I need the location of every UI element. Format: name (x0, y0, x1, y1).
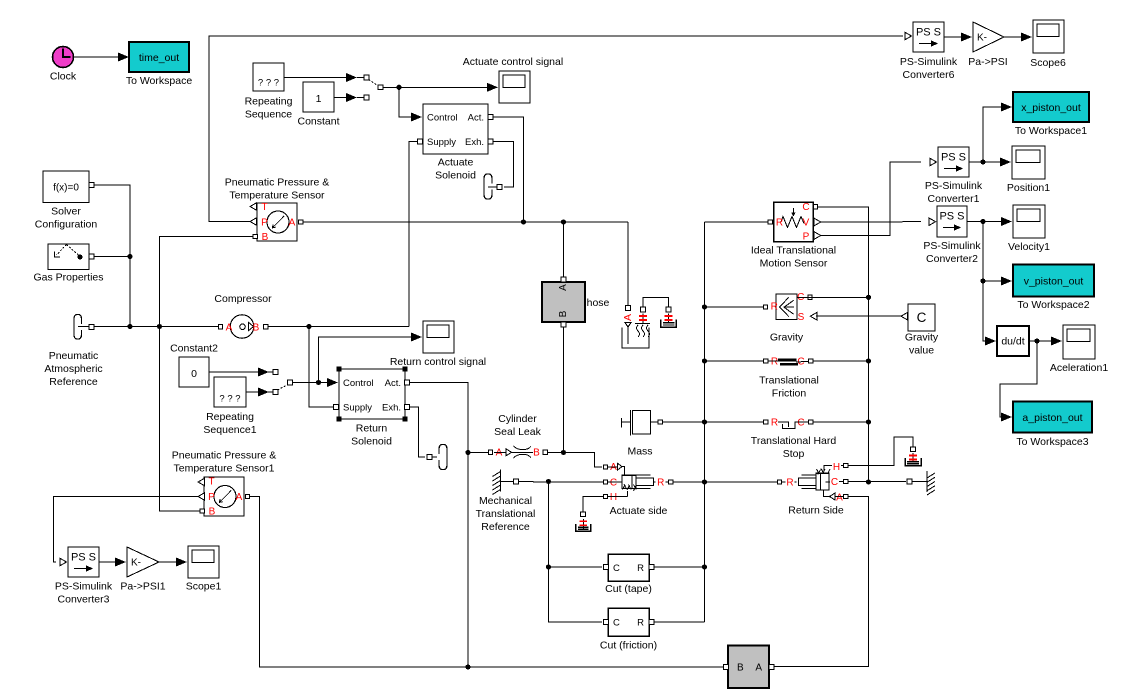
svg-text:Actuate control signal: Actuate control signal (463, 56, 563, 68)
port CutTape C (603, 565, 608, 570)
port Actuate Supply (418, 139, 423, 144)
svg-text:R: R (771, 302, 778, 313)
block To Workspace time_out (126, 42, 192, 87)
svg-text:? ? ?: ? ? ? (219, 394, 240, 405)
block Position1 (1007, 146, 1050, 194)
block scope Return control signal (390, 321, 486, 368)
wire return supply drop (309, 327, 333, 408)
svg-text:P: P (803, 232, 810, 243)
wire Repeating Sequence to switch (284, 73, 357, 82)
block scope Actuate control signal (463, 56, 563, 103)
port Return vent (427, 455, 432, 460)
svg-text:Pneumatic: Pneumatic (49, 350, 99, 362)
svg-text:Velocity1: Velocity1 (1008, 241, 1050, 253)
svg-text:Constant2: Constant2 (170, 343, 218, 355)
svg-text:Control: Control (343, 378, 374, 389)
wire supply to piston (627, 222, 629, 306)
svg-text:Pa->PSI1: Pa->PSI1 (120, 581, 165, 593)
port Return Supply (334, 405, 339, 410)
wire hose A (563, 222, 565, 277)
svg-text:V: V (803, 218, 810, 229)
block Mechanical Translational Reference (476, 470, 536, 534)
wire Return H vent (848, 437, 913, 466)
svg-text:A: A (558, 284, 569, 291)
junction bottom bus (465, 664, 470, 669)
svg-text:R: R (771, 357, 778, 368)
port CutTape R (649, 565, 654, 570)
block Compressor (214, 293, 272, 338)
svg-text:B: B (533, 448, 540, 459)
block Gravity (770, 292, 805, 344)
wire Gas Properties to tap (94, 256, 130, 258)
port Return Exh (405, 405, 410, 410)
svg-text:0: 0 (191, 368, 197, 380)
wire Return C (848, 481, 906, 483)
svg-text:Return Side: Return Side (788, 505, 844, 517)
block Return vent reservoir (905, 458, 921, 466)
svg-text:Clock: Clock (50, 71, 77, 83)
svg-text:value: value (909, 345, 934, 357)
block To Workspace1 x_piston_out (1013, 92, 1089, 137)
junction Gas Properties tap (127, 254, 132, 259)
svg-text:Mass: Mass (627, 446, 652, 458)
svg-text:Converter2: Converter2 (926, 253, 978, 265)
port Mass (658, 420, 662, 424)
svg-text:K-: K- (131, 558, 141, 569)
svg-text:Cylinder: Cylinder (498, 413, 537, 425)
block hose (542, 282, 610, 322)
svg-text:Translational Hard: Translational Hard (751, 435, 837, 447)
svg-text:C: C (917, 310, 927, 325)
arrow into Converter6 (905, 32, 912, 40)
port Return C (844, 479, 848, 483)
block hose2 (728, 646, 769, 689)
wire switch1 out (293, 382, 328, 384)
block PS-Simulink Converter2 (923, 206, 981, 265)
block Actuate side (608, 462, 669, 517)
svg-text:B: B (558, 310, 569, 317)
port sensor P (250, 218, 257, 226)
block gain Pa-PSI (968, 22, 1007, 68)
wire Repeating Sequence1 to switch1 (246, 388, 269, 397)
block piston vent reservoir (661, 320, 677, 328)
svg-text:Position1: Position1 (1007, 182, 1050, 194)
svg-text:P: P (261, 218, 268, 229)
junction return control (316, 380, 321, 385)
junction cut tape (546, 564, 551, 569)
port piston B (641, 307, 646, 312)
svg-text:Control: Control (427, 113, 458, 124)
wire to Return scope (319, 333, 423, 383)
svg-text:A: A (236, 492, 243, 503)
junction hose B leak (561, 450, 566, 455)
junction leak RS Act (465, 450, 470, 455)
port Actuate Exh (488, 139, 493, 144)
arrow into Actuate scope (487, 83, 498, 92)
port mech reference1 (907, 479, 912, 484)
block Mass (621, 410, 652, 458)
block Cylinder Seal Leak (494, 413, 542, 459)
port hose B (561, 322, 566, 327)
block Actuate Solenoid (423, 104, 488, 182)
block Mechanical Translational Reference1 (912, 471, 935, 495)
wire Friction R (813, 360, 869, 362)
arrow into Converter2 (929, 218, 936, 226)
wire cut riser (549, 482, 603, 623)
junction right bus friction (866, 358, 871, 363)
junction Act line (521, 219, 526, 224)
port CutFriction C (603, 620, 608, 625)
wire HardStop R (813, 421, 869, 423)
svg-text:C: C (831, 477, 838, 488)
wire to a_piston_out (1000, 341, 1037, 422)
svg-text:Configuration: Configuration (35, 219, 98, 231)
port Compressor A (218, 325, 222, 329)
wire Return A down (774, 497, 869, 667)
svg-text:hose: hose (587, 297, 610, 309)
junction bus gravity (702, 304, 707, 309)
port Actuate H vent (581, 512, 586, 517)
svg-text:Solenoid: Solenoid (351, 436, 392, 448)
svg-text:PS-Simulink: PS-Simulink (923, 240, 981, 252)
svg-text:C: C (613, 618, 620, 629)
block Gas Properties (33, 244, 103, 284)
wire leak to actuate A (548, 453, 603, 468)
wire leak line (468, 452, 488, 454)
port Actuate R (669, 480, 673, 484)
svg-text:PS S: PS S (71, 552, 96, 564)
svg-text:T: T (261, 202, 267, 213)
block Actuate vent capsule (484, 174, 497, 199)
svg-text:Atmospheric: Atmospheric (44, 363, 102, 375)
svg-text:Solver: Solver (51, 206, 81, 218)
wire CutFriction R (654, 621, 705, 623)
wire du/dt out (1029, 337, 1062, 346)
port sensor1 T (198, 478, 205, 486)
wire Solver Configuration to atmospheric line (94, 185, 130, 327)
junction velocity split (980, 219, 985, 224)
svg-text:B: B (209, 507, 216, 518)
junction bus piston R (702, 479, 707, 484)
port sensor1 B (200, 509, 204, 513)
port Pneumatic Atmospheric Reference (89, 325, 94, 330)
symbol piston B orifice (639, 314, 647, 324)
port hose2 A (769, 665, 774, 670)
svg-text:R: R (786, 478, 793, 489)
port HardStop R (809, 420, 813, 424)
port Compressor B (264, 325, 268, 329)
svg-text:Pa->PSI: Pa->PSI (968, 56, 1007, 68)
svg-text:PS S: PS S (941, 152, 966, 164)
svg-text:R: R (637, 563, 644, 574)
wire piston bridge (643, 298, 669, 309)
selection handles Return Solenoid (337, 367, 408, 422)
port Friction R (809, 359, 813, 363)
port Solver Configuration (89, 183, 94, 188)
wire Gravity R (705, 306, 764, 308)
svg-text:v_piston_out: v_piston_out (1024, 276, 1084, 288)
block Translational Friction (759, 357, 819, 400)
block Velocity1 (1008, 205, 1050, 253)
block Repeating Sequence1 (203, 377, 256, 436)
wire motion P to Converter1 (821, 162, 921, 236)
svg-text:Act.: Act. (385, 378, 401, 389)
svg-text:Converter1: Converter1 (928, 193, 980, 205)
svg-text:Temperature Sensor1: Temperature Sensor1 (174, 463, 275, 475)
svg-text:? ? ?: ? ? ? (258, 78, 279, 89)
port Gas Properties (89, 254, 94, 259)
svg-text:Cut (friction): Cut (friction) (600, 640, 657, 652)
svg-text:S: S (798, 312, 805, 323)
wire cut tape C (549, 566, 603, 568)
svg-text:Converter3: Converter3 (58, 594, 110, 606)
svg-text:Return control signal: Return control signal (390, 356, 486, 368)
svg-text:Reference: Reference (481, 521, 530, 533)
symbol Return vent marks (909, 453, 917, 463)
port Friction L (764, 359, 768, 363)
port motion V (814, 218, 821, 226)
svg-text:T: T (208, 477, 214, 488)
port Return H (844, 463, 848, 467)
svg-text:Sequence1: Sequence1 (203, 424, 256, 436)
wire atmospheric line (94, 326, 218, 328)
svg-text:K-: K- (977, 33, 987, 44)
port piston vent (666, 307, 671, 312)
block Pneumatic Atmospheric Reference (44, 315, 102, 389)
wire Constant2 to switch1 (209, 368, 269, 377)
port motion R (768, 220, 772, 224)
port Actuate Act (488, 115, 493, 120)
wire supply riser (409, 142, 418, 327)
wire Mass to bus (651, 421, 705, 423)
block To Workspace3 a_piston_out (1013, 402, 1092, 449)
svg-text:PS S: PS S (939, 211, 964, 223)
junction sensor B line (157, 324, 162, 329)
block PS-Simulink Converter6 (900, 22, 958, 81)
port Gravity S (810, 312, 817, 320)
svg-text:C: C (797, 418, 804, 429)
junction hose A line (561, 219, 566, 224)
svg-text:Solenoid: Solenoid (435, 170, 476, 182)
wire Gravity S to value (816, 315, 901, 317)
block Actuate vent reservoir (576, 524, 591, 531)
svg-text:H: H (833, 462, 840, 473)
svg-text:A: A (289, 218, 296, 229)
port CutFriction R (649, 620, 654, 625)
wire RS Act to bottom bus (467, 453, 469, 668)
svg-text:Exh.: Exh. (465, 137, 484, 148)
svg-text:B: B (253, 323, 260, 334)
wire Clock to time_out (74, 53, 129, 62)
wire Converter1 out (969, 158, 1011, 167)
wire Return Act (410, 383, 469, 453)
svg-text:To Workspace: To Workspace (126, 75, 192, 87)
port Return R (777, 480, 781, 484)
svg-text:Ideal Translational: Ideal Translational (751, 245, 836, 257)
port Actuate A (603, 465, 607, 469)
block Solver Configuration (35, 171, 98, 231)
svg-text:R: R (776, 218, 783, 229)
svg-text:Reference: Reference (49, 376, 98, 388)
svg-text:Friction: Friction (772, 388, 807, 400)
wire to v_piston_out (983, 277, 1012, 286)
junction right bus gravity (866, 295, 871, 300)
block Repeating Sequence (245, 63, 293, 121)
wire Converter6 to gain (944, 33, 972, 42)
wire sensor P to PS-Simulink Converter6 (209, 36, 903, 222)
svg-text:Mechanical: Mechanical (479, 495, 532, 507)
svg-text:A: A (755, 663, 762, 674)
junction cut riser (546, 479, 551, 484)
wire CutTape R (654, 566, 705, 568)
block Constant (297, 82, 339, 128)
port Gravity R (763, 305, 767, 309)
block Gravity value (901, 304, 939, 357)
svg-text:Pneumatic Pressure &: Pneumatic Pressure & (172, 450, 276, 462)
svg-text:Translational: Translational (759, 375, 819, 387)
wire sensor1 P to Converter3 (54, 497, 199, 563)
port piston A (626, 306, 631, 311)
svg-text:Compressor: Compressor (214, 293, 272, 305)
wire Return Exh (410, 407, 426, 457)
wire to x_piston_out (983, 103, 1012, 163)
svg-text:Actuate: Actuate (438, 157, 474, 169)
svg-text:PS S: PS S (916, 27, 941, 39)
wire Constant to switch (334, 93, 357, 102)
port hose2 B (723, 665, 728, 670)
block Manual Switch (357, 75, 383, 100)
port sensor B (253, 234, 257, 238)
port Actuate H (603, 494, 607, 498)
wire Gravity C (797, 296, 869, 298)
svg-text:A: A (496, 448, 503, 459)
svg-text:PS-Simulink: PS-Simulink (55, 581, 113, 593)
junction right bus return C (866, 479, 871, 484)
wire gain to Scope1 (159, 558, 187, 567)
svg-text:C: C (610, 478, 617, 489)
port Return H vent (911, 447, 916, 452)
svg-text:Sequence: Sequence (245, 109, 292, 121)
svg-text:To Workspace3: To Workspace3 (1016, 436, 1088, 448)
svg-text:f(x)=0: f(x)=0 (53, 183, 79, 194)
block Pneumatic Pressure & Temperature Sensor (225, 177, 329, 244)
block PS-Simulink Converter3 (55, 547, 113, 606)
svg-text:1: 1 (316, 93, 322, 105)
block Manual Switch1 (268, 370, 292, 395)
wire left mech bus (704, 222, 706, 622)
wire hose B (563, 327, 565, 453)
svg-text:C: C (802, 202, 809, 213)
svg-text:P: P (208, 492, 215, 503)
svg-text:R: R (637, 618, 644, 629)
symbol piston vent orifice (665, 314, 673, 324)
svg-text:PS-Simulink: PS-Simulink (925, 180, 983, 192)
block Scope6 (1030, 20, 1066, 69)
wire Compressor B out (269, 326, 410, 328)
svg-text:Translational: Translational (476, 508, 536, 520)
svg-text:Cut (tape): Cut (tape) (605, 583, 652, 595)
wire junction to Actuate Solenoid Control (399, 87, 422, 121)
wire sensor B to atmospheric line (160, 237, 254, 512)
block piston chamber assembly (622, 314, 650, 348)
svg-text:Pneumatic Pressure &: Pneumatic Pressure & (225, 177, 329, 189)
block Return Solenoid (339, 369, 405, 448)
block Ideal Translational Motion Sensor (751, 202, 836, 270)
wire Exh to vent (493, 142, 514, 188)
svg-text:A: A (226, 323, 233, 334)
svg-text:Seal Leak: Seal Leak (494, 426, 541, 438)
arrow into Return Solenoid Control (327, 378, 338, 387)
block Aceleration1 (1050, 325, 1109, 374)
svg-text:Repeating: Repeating (206, 411, 254, 423)
svg-text:A: A (836, 493, 843, 504)
wire Converter2 out (967, 217, 1012, 226)
wire reference to cylinders (518, 481, 603, 483)
svg-text:Constant: Constant (297, 116, 339, 128)
junction right bus hardstop (866, 419, 871, 424)
junction solver line (127, 324, 132, 329)
svg-text:Scope1: Scope1 (186, 581, 222, 593)
wire switch to junction (383, 86, 489, 88)
port sensor T (250, 203, 257, 211)
svg-text:Return: Return (356, 423, 388, 435)
arrow into Converter1 (930, 158, 937, 166)
wire gain to Scope6 (1004, 33, 1032, 42)
svg-text:R: R (771, 418, 778, 429)
svg-text:Gravity: Gravity (770, 332, 804, 344)
svg-text:a_piston_out: a_piston_out (1022, 412, 1082, 424)
svg-text:Scope6: Scope6 (1030, 57, 1066, 69)
svg-text:PS-Simulink: PS-Simulink (900, 56, 958, 68)
svg-text:B: B (737, 663, 744, 674)
wire motion R (705, 221, 769, 223)
wire Actuate R (673, 481, 777, 483)
wire Friction L (705, 360, 764, 362)
svg-text:To Workspace1: To Workspace1 (1015, 125, 1087, 137)
block Return vent capsule (432, 445, 447, 470)
svg-text:A: A (622, 314, 634, 321)
svg-text:Supply: Supply (343, 403, 372, 414)
svg-text:Exh.: Exh. (382, 403, 401, 414)
wire motion V to Converter2 (821, 221, 921, 223)
junction return supply (306, 324, 311, 329)
port Actuate C (603, 480, 607, 484)
block Constant2 (170, 343, 218, 388)
symbol Actuate vent marks (580, 519, 588, 529)
port Gravity C (808, 295, 812, 299)
port Actuate vent (497, 185, 502, 190)
block Scope1 (186, 546, 222, 593)
wire Actuate H vent (583, 497, 603, 513)
svg-text:du/dt: du/dt (1001, 336, 1024, 348)
svg-text:H: H (610, 492, 617, 503)
svg-text:Act.: Act. (468, 113, 484, 124)
port seal leak A (488, 450, 492, 454)
svg-text:R: R (657, 478, 664, 489)
svg-text:Gas Properties: Gas Properties (33, 272, 103, 284)
block Derivative du/dt (997, 326, 1029, 356)
port sensor1 P (198, 493, 205, 501)
port sensor A (299, 220, 303, 224)
svg-text:x_piston_out: x_piston_out (1021, 102, 1081, 114)
wire motion C to right bus (818, 207, 869, 482)
wire sensor1 A to bottom bus (250, 497, 723, 668)
port motion C (813, 205, 817, 209)
port Return Act (405, 380, 410, 385)
block gain Pa-PSI1 (120, 547, 165, 593)
svg-text:Motion Sensor: Motion Sensor (760, 258, 828, 270)
svg-text:Aceleration1: Aceleration1 (1050, 362, 1109, 374)
